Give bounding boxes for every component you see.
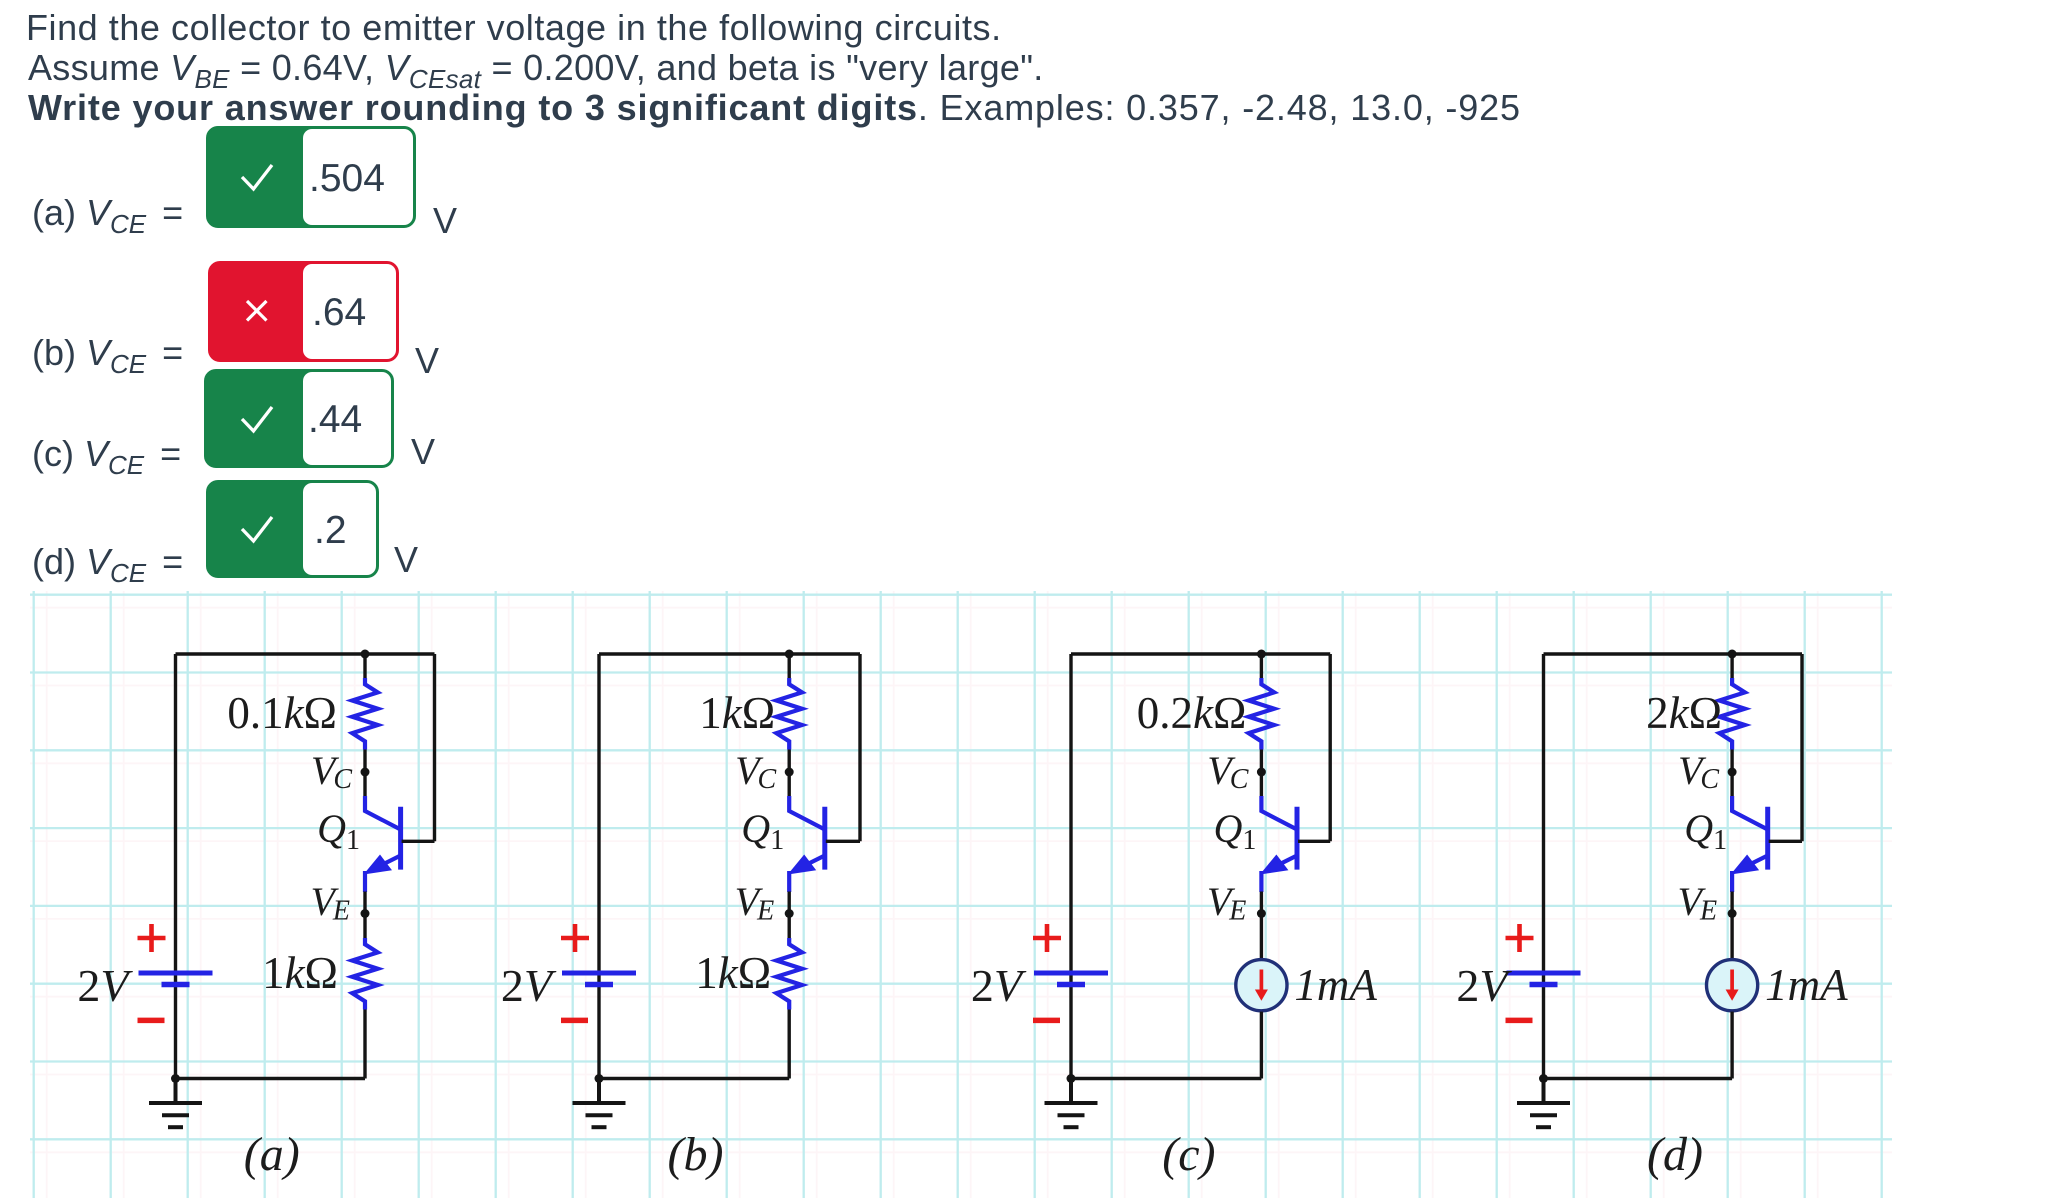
svg-text:(c): (c): [1162, 1128, 1215, 1181]
wire: left vertical branch (battery branch) of circuit (b): [597, 654, 600, 1079]
battery 2V (circuit c): long plate: [1034, 971, 1108, 976]
wire: bottom rail of circuit (c): [1071, 1077, 1261, 1080]
wire: stub from top rail to collector resistor (d): [1730, 654, 1733, 679]
svg-text:(d): (d): [1647, 1128, 1703, 1181]
svg-text:1kΩ: 1kΩ: [699, 688, 775, 738]
wire: bottom rail of circuit (a): [176, 1077, 366, 1080]
svg-text:1mA: 1mA: [1294, 960, 1377, 1010]
battery polarity minus sign (b): [561, 1018, 588, 1024]
svg-text:VE: VE: [1678, 879, 1718, 927]
transistor Q1 (NPN, circuit b): [788, 796, 825, 892]
wire: node VE to emitter resistor (b): [788, 914, 791, 941]
svg-text:2V: 2V: [971, 960, 1027, 1011]
svg-text:VC: VC: [1207, 748, 1248, 795]
current source 1mA (circuit d): [1707, 960, 1758, 1011]
ground (circuit a): [149, 1079, 202, 1128]
junction node at top of collector resistor (a): [361, 650, 370, 659]
wire: base of Q1 to right branch (b): [826, 840, 860, 843]
wire: bottom rail of circuit (b): [599, 1077, 789, 1080]
wire: current source to bottom rail (d): [1730, 1012, 1733, 1079]
transistor Q1 (NPN, circuit a): [364, 796, 401, 892]
wire: top rail of circuit (c): [1071, 652, 1330, 655]
wire: stub from top rail to collector resistor (a): [363, 654, 366, 679]
wire: emitter resistor to bottom rail (a): [363, 1010, 366, 1079]
resistor 0.2kΩ (collector resistor, circuit c): [1249, 678, 1275, 750]
ground (circuit c): [1045, 1079, 1098, 1128]
battery polarity minus sign (a): [138, 1018, 165, 1024]
resistor 2kΩ (collector resistor, circuit d): [1719, 678, 1745, 750]
node VE (emitter node dot, circuit a): [361, 909, 370, 918]
wire: right vertical branch (base feed) of circuit (d): [1800, 654, 1803, 841]
svg-text:VC: VC: [735, 748, 776, 795]
wire: node VC down to transistor collector (b): [788, 772, 791, 797]
svg-text:2kΩ: 2kΩ: [1646, 688, 1722, 738]
svg-text:Q1: Q1: [317, 806, 360, 856]
svg-text:(b): (b): [668, 1128, 724, 1181]
wire: top rail of circuit (a): [176, 652, 435, 655]
junction node at ground connection (b): [595, 1074, 604, 1083]
wire: current source to bottom rail (c): [1260, 1012, 1263, 1079]
battery 2V (circuit d): short plate: [1530, 982, 1558, 988]
battery 2V (circuit a): long plate: [139, 971, 213, 976]
battery 2V (circuit c): short plate: [1057, 982, 1085, 988]
wire: collector resistor to node VC (b): [788, 750, 791, 773]
wire: stub from top rail to collector resistor (c): [1260, 654, 1263, 679]
node VE (emitter node dot, circuit d): [1728, 909, 1737, 918]
svg-text:VE: VE: [310, 879, 350, 927]
transistor Q1 (NPN, circuit c): [1260, 796, 1297, 892]
node VE (emitter node dot, circuit c): [1257, 909, 1266, 918]
svg-text:Q1: Q1: [1684, 806, 1727, 856]
svg-text:(a): (a): [244, 1128, 300, 1181]
svg-text:2V: 2V: [77, 960, 133, 1011]
wire: node VC down to transistor collector (a): [363, 772, 366, 797]
battery 2V (circuit b): short plate: [585, 982, 613, 988]
wire: base of Q1 to right branch (a): [402, 840, 435, 843]
wire: transistor emitter down to node VE (d): [1730, 892, 1733, 914]
battery polarity minus sign (c): [1033, 1018, 1060, 1024]
current source 1mA (circuit c): [1236, 960, 1287, 1011]
wire: emitter resistor to bottom rail (b): [788, 1010, 791, 1079]
wire: transistor emitter down to node VE (a): [363, 892, 366, 914]
svg-text:VE: VE: [1207, 879, 1247, 927]
wire: top rail of circuit (d): [1544, 652, 1803, 655]
wire: node VC down to transistor collector (d): [1730, 772, 1733, 797]
wire: right vertical branch (base feed) of circuit (b): [858, 654, 861, 841]
resistor 0.1kΩ (collector resistor, circuit a): [352, 678, 378, 750]
node VC (collector node dot, circuit a): [361, 768, 370, 777]
wire: node VE to current source (c): [1260, 914, 1263, 961]
resistor 1kΩ (emitter resistor, circuit a): [352, 938, 378, 1010]
svg-text:VE: VE: [735, 879, 775, 927]
wire: transistor emitter down to node VE (b): [788, 892, 791, 914]
wire: collector resistor to node VC (c): [1260, 750, 1263, 773]
wire: left vertical branch (battery branch) of circuit (c): [1069, 654, 1072, 1079]
battery 2V (circuit b): long plate: [562, 971, 636, 976]
ground (circuit d): [1517, 1079, 1570, 1128]
svg-text:1kΩ: 1kΩ: [695, 948, 771, 998]
wire: left vertical branch (battery branch) of circuit (d): [1542, 654, 1545, 1079]
wire: base of Q1 to right branch (d): [1769, 840, 1802, 843]
junction node at top of collector resistor (b): [785, 650, 794, 659]
wire: node VE to current source (d): [1730, 914, 1733, 961]
svg-text:VC: VC: [1678, 748, 1719, 795]
svg-text:0.2kΩ: 0.2kΩ: [1137, 688, 1247, 738]
wire: collector resistor to node VC (a): [363, 750, 366, 773]
svg-text:1mA: 1mA: [1765, 960, 1848, 1010]
wire: right vertical branch (base feed) of circuit (c): [1328, 654, 1331, 841]
ground (circuit b): [573, 1079, 626, 1128]
junction node at ground connection (a): [171, 1074, 180, 1083]
battery polarity plus sign (a): [138, 924, 166, 952]
resistor 1kΩ (emitter resistor, circuit b): [776, 938, 802, 1010]
svg-text:Q1: Q1: [741, 806, 784, 856]
wire: collector resistor to node VC (d): [1730, 750, 1733, 773]
battery polarity minus sign (d): [1506, 1018, 1533, 1024]
svg-text:2V: 2V: [1456, 960, 1512, 1011]
wire: left vertical branch (battery branch) of circuit (a): [174, 654, 177, 1079]
wire: right vertical branch (base feed) of circuit (a): [433, 654, 436, 841]
wire: node VE to emitter resistor (a): [363, 914, 366, 941]
battery polarity plus sign (b): [561, 924, 589, 952]
wire: node VC down to transistor collector (c): [1260, 772, 1263, 797]
junction node at top of collector resistor (d): [1728, 650, 1737, 659]
wire: stub from top rail to collector resistor (b): [788, 654, 791, 679]
wire: top rail of circuit (b): [599, 652, 860, 655]
battery 2V (circuit d): long plate: [1507, 971, 1581, 976]
battery polarity plus sign (c): [1033, 924, 1061, 952]
junction node at ground connection (c): [1067, 1074, 1076, 1083]
wire: transistor emitter down to node VE (c): [1260, 892, 1263, 914]
node VC (collector node dot, circuit d): [1728, 768, 1737, 777]
battery 2V (circuit a): short plate: [162, 982, 190, 988]
transistor Q1 (NPN, circuit d): [1731, 796, 1768, 892]
junction node at top of collector resistor (c): [1257, 650, 1266, 659]
node VE (emitter node dot, circuit b): [785, 909, 794, 918]
svg-text:1kΩ: 1kΩ: [262, 948, 338, 998]
svg-text:2V: 2V: [501, 960, 557, 1011]
wire: bottom rail of circuit (d): [1544, 1077, 1733, 1080]
battery polarity plus sign (d): [1506, 924, 1534, 952]
node VC (collector node dot, circuit b): [785, 768, 794, 777]
svg-text:VC: VC: [311, 748, 352, 795]
junction node at ground connection (d): [1539, 1074, 1548, 1083]
svg-text:Q1: Q1: [1214, 806, 1257, 856]
svg-text:0.1kΩ: 0.1kΩ: [227, 688, 337, 738]
resistor 1kΩ (collector resistor, circuit b): [776, 678, 802, 750]
wire: base of Q1 to right branch (c): [1298, 840, 1330, 843]
node VC (collector node dot, circuit c): [1257, 768, 1266, 777]
